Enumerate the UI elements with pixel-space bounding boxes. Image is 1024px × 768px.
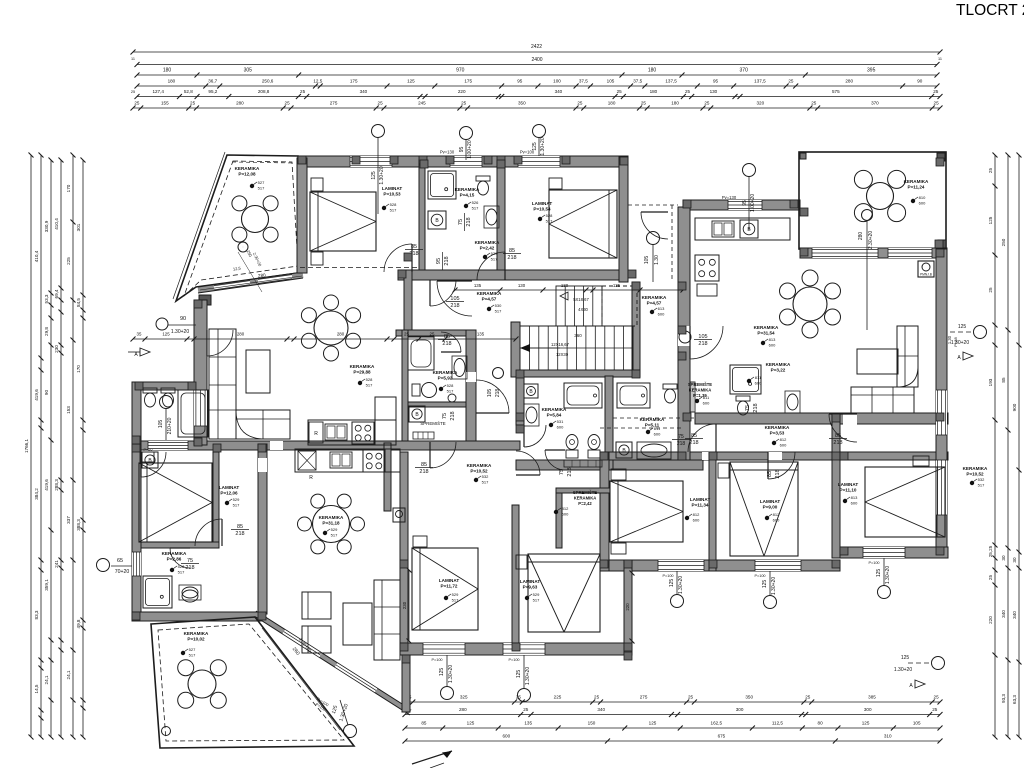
window marker t3 [533, 125, 546, 138]
wall living left [194, 300, 207, 445]
svg-text:218: 218 [466, 217, 472, 226]
window terrace-tr 2 [888, 248, 932, 258]
svg-text:340: 340 [1012, 611, 1017, 619]
top dim chain 2400 [137, 64, 937, 66]
tv table right-apt [857, 349, 898, 374]
window bottom r-1 [863, 547, 905, 558]
wall bl left [132, 444, 141, 621]
svg-text:600: 600 [654, 432, 661, 437]
svg-text:LAMINAT: LAMINAT [382, 186, 403, 191]
svg-text:105: 105 [913, 721, 921, 726]
svg-text:218: 218 [450, 303, 459, 309]
door hall top-apt [384, 244, 412, 272]
svg-text:600: 600 [502, 734, 510, 739]
svg-text:220: 220 [625, 603, 630, 611]
svg-text:811: 811 [654, 426, 661, 431]
svg-text:275: 275 [330, 101, 338, 106]
svg-text:395: 395 [867, 68, 876, 74]
svg-text:230: 230 [402, 601, 407, 609]
svg-text:210+20: 210+20 [167, 417, 173, 434]
terrace top-left outer thin [173, 152, 225, 299]
svg-text:218: 218 [507, 255, 516, 261]
shower bl-unit [143, 576, 172, 608]
wall right corner box [936, 547, 947, 558]
hall dashed 2 [600, 427, 683, 429]
wall junction 10 [516, 413, 524, 421]
door opening b3 [843, 414, 857, 425]
svg-text:529: 529 [233, 497, 240, 502]
window living left [194, 390, 207, 426]
wall junction 27 [132, 444, 140, 452]
svg-text:25: 25 [788, 79, 794, 84]
svg-text:180: 180 [648, 68, 657, 74]
svg-text:175: 175 [350, 79, 358, 84]
svg-text:105: 105 [607, 79, 615, 84]
svg-text:517: 517 [978, 483, 985, 488]
svg-text:25: 25 [404, 332, 409, 337]
wall bedroom1/bath [419, 160, 425, 270]
svg-text:517: 517 [233, 503, 240, 508]
svg-text:220: 220 [458, 89, 466, 94]
circle corridor end [679, 331, 691, 343]
door opening entry [678, 326, 690, 346]
stairs main run [520, 326, 633, 370]
wall hall vertical [404, 270, 412, 332]
door opening blr [258, 458, 267, 472]
svg-text:105: 105 [450, 296, 459, 302]
right dim col2 [1007, 155, 1009, 737]
table terrace TL [242, 206, 269, 233]
svg-text:LAMINAT: LAMINAT [838, 482, 859, 487]
window top-1 [350, 156, 392, 167]
wall junction 40 [135, 382, 143, 390]
dot wc top [483, 255, 487, 259]
svg-text:125: 125 [516, 670, 522, 679]
svg-text:575: 575 [832, 89, 840, 94]
svg-text:300: 300 [736, 707, 744, 712]
svg-text:85: 85 [1001, 377, 1006, 383]
svg-text:162,5: 162,5 [711, 721, 723, 726]
wall junction 57 [400, 560, 408, 568]
window bottom ml-2 [503, 643, 545, 655]
svg-text:85: 85 [421, 462, 427, 468]
svg-text:125: 125 [901, 655, 910, 661]
door opening b2 [768, 452, 782, 460]
wall building right [936, 249, 947, 558]
svg-text:KERAMIKA: KERAMIKA [184, 631, 209, 636]
sofa L top-apt [209, 329, 236, 439]
bathtub top-apt [178, 390, 208, 437]
svg-text:25: 25 [805, 695, 811, 700]
svg-text:527: 527 [258, 180, 265, 185]
svg-text:330,9: 330,9 [44, 220, 49, 232]
wall junction 44 [390, 156, 398, 164]
svg-text:25: 25 [285, 101, 291, 106]
svg-text:517: 517 [482, 480, 489, 485]
svg-text:5X18,67: 5X18,67 [573, 297, 589, 302]
svg-text:130: 130 [518, 283, 526, 288]
dot bath mid [549, 423, 553, 427]
svg-text:155: 155 [161, 101, 169, 106]
svg-text:TLOCRT 2: TLOCRT 2 [956, 2, 1024, 19]
wall junction 15 [832, 452, 840, 460]
svg-text:P=100: P=100 [868, 561, 879, 565]
svg-text:24,1: 24,1 [66, 670, 71, 679]
door bed1 right-apt [688, 424, 716, 452]
svg-text:85: 85 [835, 433, 841, 439]
svg-text:130: 130 [710, 89, 718, 94]
svg-text:137,5: 137,5 [665, 79, 677, 84]
svg-text:LAMINAT: LAMINAT [439, 578, 460, 583]
door label 65/70+20 [97, 559, 110, 572]
door opening cbath right [466, 372, 476, 382]
dot bath1 [464, 204, 468, 208]
svg-text:359,1: 359,1 [44, 579, 49, 591]
svg-text:208,8: 208,8 [258, 89, 270, 94]
svg-text:517: 517 [366, 383, 373, 388]
svg-text:288,3: 288,3 [54, 479, 59, 491]
door bed3 right-apt [829, 414, 857, 442]
wall bedrooms sep1 [709, 452, 716, 571]
svg-text:25: 25 [577, 101, 583, 106]
outer wall top [298, 156, 628, 167]
door opening blk [270, 441, 283, 450]
svg-text:29,8: 29,8 [44, 327, 49, 336]
svg-text:528: 528 [178, 564, 185, 569]
svg-text:125: 125 [371, 171, 377, 180]
svg-text:LAMINAT: LAMINAT [532, 201, 553, 206]
shelf bath mid [564, 460, 602, 467]
dot terrace TR [911, 199, 915, 203]
svg-text:125: 125 [162, 332, 170, 337]
shower right-apt [730, 365, 761, 394]
svg-text:280: 280 [858, 232, 864, 241]
wall bl bath sep [141, 542, 219, 548]
svg-text:130: 130 [561, 283, 569, 288]
svg-text:49,8: 49,8 [76, 619, 81, 628]
dot mlB [525, 596, 529, 600]
svg-text:25: 25 [594, 695, 600, 700]
hall dashed 1 [613, 417, 695, 419]
svg-text:1.30+20: 1.30+20 [448, 665, 454, 683]
wall junction 34 [194, 438, 202, 446]
dot right living [761, 341, 765, 345]
wc top pair 2 [161, 388, 175, 393]
svg-text:75: 75 [559, 469, 565, 475]
svg-text:75: 75 [745, 405, 751, 411]
svg-text:280: 280 [236, 101, 244, 106]
wall junction 54 [497, 160, 505, 168]
svg-text:812: 812 [562, 506, 569, 511]
svg-text:218: 218 [698, 341, 707, 347]
wall junction 17 [936, 249, 944, 257]
door ml-unit A [430, 442, 456, 468]
wall junction 50 [800, 248, 808, 256]
stairs upper flight [556, 286, 602, 326]
svg-text:LAMINAT: LAMINAT [760, 499, 781, 504]
svg-text:517: 517 [472, 206, 479, 211]
wall stair right [632, 282, 640, 376]
window bl left [132, 552, 141, 576]
window marker t4 [743, 164, 756, 177]
svg-text:528: 528 [366, 377, 373, 382]
window right-1 [936, 390, 947, 435]
window marker t1 [372, 125, 385, 138]
svg-text:225: 225 [554, 695, 562, 700]
wall junction 49 [800, 208, 808, 216]
svg-text:360: 360 [574, 333, 582, 338]
svg-text:R: R [314, 431, 318, 437]
svg-text:600: 600 [755, 381, 762, 386]
bed bl-unit [139, 463, 212, 542]
svg-text:R: R [309, 475, 313, 481]
window right-apt top [728, 200, 762, 210]
wall top-middle right [619, 157, 628, 282]
svg-text:75: 75 [187, 558, 193, 564]
kitchen right-apt counter [695, 218, 790, 240]
wall bl top [135, 441, 520, 450]
dot living bottom [323, 531, 327, 535]
svg-text:P=31,54: P=31,54 [757, 330, 775, 335]
svg-text:KERAMIKA: KERAMIKA [455, 187, 480, 192]
wc mid pair2 [588, 450, 600, 458]
svg-text:25: 25 [704, 101, 710, 106]
wall junction 51 [936, 158, 944, 166]
svg-text:301: 301 [76, 223, 81, 231]
wc mid pair1 [566, 450, 578, 458]
coffee table bottom [343, 603, 372, 645]
kitchen top-apt stove [352, 422, 374, 444]
window bl top [148, 441, 188, 450]
wall bl bedroom sep [213, 452, 219, 544]
dot hall2 [650, 310, 654, 314]
kitchen right-apt washer [740, 220, 758, 238]
svg-text:218: 218 [185, 565, 194, 571]
door bed2 right-apt [768, 452, 795, 479]
dot bl bedroom [225, 501, 229, 505]
dot hall top [487, 307, 491, 311]
svg-text:531: 531 [557, 419, 564, 424]
svg-text:388,3: 388,3 [76, 519, 81, 531]
svg-text:25: 25 [811, 101, 817, 106]
window bottom ml-1 [423, 643, 465, 655]
svg-text:527: 527 [189, 647, 196, 652]
svg-text:1.00+20: 1.00+20 [750, 194, 756, 212]
svg-text:812: 812 [693, 512, 700, 517]
svg-text:25: 25 [988, 168, 993, 174]
wall junction 24 [400, 643, 408, 651]
svg-text:85: 85 [421, 721, 427, 726]
wall bottom right [840, 547, 948, 558]
svg-text:14,5: 14,5 [34, 684, 39, 693]
svg-text:125: 125 [439, 668, 445, 677]
svg-text:218: 218 [775, 469, 781, 478]
svg-text:517: 517 [546, 219, 553, 224]
window marker b5 [878, 586, 891, 599]
svg-text:600: 600 [562, 512, 569, 517]
svg-text:11: 11 [938, 57, 942, 61]
svg-text:600: 600 [693, 518, 700, 523]
svg-text:1.30+20: 1.30+20 [771, 577, 777, 595]
svg-text:305: 305 [244, 68, 253, 74]
svg-text:280: 280 [337, 332, 345, 337]
wall bl bottom [132, 612, 263, 621]
svg-text:25,25: 25,25 [988, 545, 993, 557]
svg-text:25: 25 [934, 101, 940, 106]
svg-text:1.30+20: 1.30+20 [885, 566, 891, 584]
svg-text:P=3,53: P=3,53 [770, 430, 785, 435]
svg-text:218: 218 [444, 256, 450, 265]
svg-text:325: 325 [460, 695, 468, 700]
svg-text:25: 25 [617, 89, 623, 94]
svg-text:90: 90 [44, 390, 49, 396]
svg-text:528: 528 [546, 213, 553, 218]
top dim chain row4 [137, 85, 937, 87]
wall storage [556, 488, 562, 548]
svg-text:810: 810 [919, 195, 926, 200]
svg-text:225: 225 [66, 257, 71, 265]
wall left-bath top [132, 382, 196, 390]
bed right-apt b1 [610, 481, 683, 542]
svg-text:125: 125 [669, 579, 675, 588]
svg-text:95: 95 [713, 79, 719, 84]
svg-text:35: 35 [137, 332, 142, 337]
svg-text:P=100: P=100 [431, 658, 442, 662]
table dining bottom [313, 506, 350, 543]
window marker notch [647, 232, 660, 245]
wall bottom units sep [400, 452, 408, 643]
svg-text:105: 105 [698, 334, 707, 340]
wall junction 56 [624, 652, 632, 660]
svg-text:135: 135 [474, 283, 482, 288]
wall junction 59 [840, 452, 848, 460]
svg-text:105: 105 [487, 389, 493, 398]
svg-text:80: 80 [818, 721, 824, 726]
interior dim v 230 [408, 570, 410, 641]
svg-text:529: 529 [533, 592, 540, 597]
right dim col1 [994, 155, 996, 737]
svg-text:2422: 2422 [531, 44, 542, 50]
svg-text:340: 340 [597, 707, 605, 712]
sink mid [524, 404, 539, 426]
svg-text:529: 529 [331, 527, 338, 532]
wall junction 12 [936, 413, 944, 421]
svg-text:11: 11 [131, 57, 135, 61]
svg-text:105: 105 [158, 420, 164, 429]
svg-text:218: 218 [442, 341, 451, 347]
window right-2 [936, 460, 947, 515]
svg-text:P=11,72: P=11,72 [441, 583, 458, 588]
svg-text:125: 125 [988, 216, 993, 224]
dot terrace TL [250, 184, 254, 188]
svg-text:P=11,24: P=11,24 [908, 184, 925, 189]
duct striped [686, 382, 695, 412]
wall bath row bottom [516, 460, 703, 470]
wall junction 31 [258, 612, 266, 620]
svg-text:900: 900 [1012, 403, 1017, 411]
svg-text:LAMINAT: LAMINAT [219, 485, 240, 490]
kitchen top-apt sink [325, 424, 347, 440]
right dim col3 [1018, 155, 1020, 737]
svg-text:PMNJ.B: PMNJ.B [920, 273, 932, 277]
wc right-apt [736, 396, 750, 401]
wall right-apt top [683, 200, 800, 210]
svg-text:25: 25 [932, 707, 938, 712]
svg-text:125: 125 [532, 142, 538, 151]
svg-text:280: 280 [258, 273, 267, 279]
door entry right-apt [690, 326, 723, 359]
wall bedrooms sep2 [832, 414, 840, 558]
svg-text:350: 350 [518, 101, 526, 106]
svg-text:SPREMIŠTE: SPREMIŠTE [420, 421, 445, 426]
wall bedroom fronts [600, 452, 948, 460]
svg-text:24,1: 24,1 [44, 675, 49, 684]
window bottom mr-1 [658, 560, 704, 571]
svg-text:25: 25 [378, 101, 384, 106]
wall cbath top [396, 330, 476, 336]
svg-text:90: 90 [917, 79, 923, 84]
terrace dim 280 [862, 210, 873, 221]
svg-text:85: 85 [767, 471, 773, 477]
sofa right-apt [851, 387, 914, 413]
wall junction 35 [683, 200, 691, 208]
svg-text:63,3: 63,3 [1012, 695, 1017, 704]
dot wc mid [646, 430, 650, 434]
wc cbath [412, 384, 420, 396]
svg-text:530: 530 [495, 303, 502, 308]
svg-text:KERAMIKA: KERAMIKA [765, 425, 790, 430]
bed right-apt b2 [730, 462, 798, 556]
svg-text:KERAMIKA: KERAMIKA [350, 364, 375, 369]
svg-text:37,5: 37,5 [579, 79, 588, 84]
svg-text:517: 517 [447, 389, 454, 394]
wall junction 36 [790, 200, 798, 208]
section marker A left [140, 348, 150, 356]
chimney shaft [393, 508, 405, 522]
svg-text:340: 340 [360, 89, 368, 94]
top dim chain row6 [133, 107, 940, 109]
svg-text:137,5: 137,5 [754, 79, 766, 84]
svg-text:811: 811 [755, 375, 762, 380]
svg-text:384,2: 384,2 [34, 488, 39, 500]
door cbath top arc [441, 332, 461, 352]
svg-text:95,2: 95,2 [208, 89, 217, 94]
svg-text:350: 350 [745, 695, 753, 700]
svg-text:218: 218 [677, 441, 686, 447]
kitchen top-apt fridge [309, 422, 323, 443]
svg-text:811: 811 [703, 395, 710, 400]
dot spremiste ml [554, 510, 558, 514]
svg-text:528: 528 [390, 202, 397, 207]
wall junction 13 [600, 452, 608, 460]
svg-text:532: 532 [978, 477, 985, 482]
svg-text:600: 600 [919, 201, 926, 206]
wall junction 29 [213, 444, 221, 452]
svg-text:25: 25 [685, 89, 691, 94]
svg-text:25: 25 [134, 101, 140, 106]
stair landing dashed [602, 286, 637, 326]
terrace top-right outline [799, 152, 946, 249]
svg-text:310: 310 [884, 734, 892, 739]
sink bath1 [484, 206, 499, 228]
terrace top-left inner dashed [184, 161, 298, 296]
wall junction 28 [258, 444, 266, 452]
wall junction 26 [624, 643, 632, 651]
wall bath/bedroom2 [497, 160, 505, 270]
svg-text:526: 526 [472, 200, 479, 205]
wall junction 1 [419, 156, 427, 164]
wall right-apt left [678, 207, 690, 460]
